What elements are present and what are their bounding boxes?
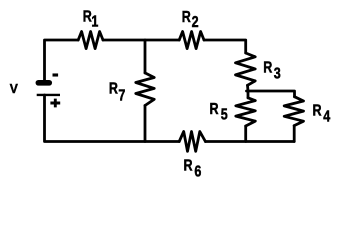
label R1: [83, 8, 99, 31]
battery V negative plate (short thick bar): [38, 80, 49, 86]
svg-text:3: 3: [274, 65, 281, 83]
svg-text:5: 5: [221, 106, 228, 124]
svg-text:1: 1: [91, 13, 98, 31]
resistor R6: [179, 132, 205, 152]
svg-text:6: 6: [194, 163, 201, 181]
label R4: [313, 102, 331, 126]
label R5: [210, 100, 228, 124]
label R2: [182, 9, 199, 32]
svg-text:V: V: [10, 82, 19, 97]
wire mid horizontal (node B to R4 top): [247, 91, 295, 97]
svg-text:R: R: [263, 59, 273, 77]
wire node B (R3 bottom to mid junction): [246, 85, 249, 98]
battery V positive plate (long thin bar): [37, 94, 60, 96]
svg-text:7: 7: [118, 87, 125, 105]
wire bottom rail left (battery bottom to R6): [45, 95, 180, 142]
svg-text:2: 2: [192, 14, 199, 32]
wire R7 bottom lead: [144, 106, 147, 142]
svg-text:R: R: [210, 100, 220, 118]
svg-text:R: R: [109, 80, 119, 98]
resistor R3: [236, 53, 256, 85]
svg-text:R: R: [184, 157, 194, 175]
wire R7 top lead (junction on top rail): [144, 40, 147, 73]
svg-text:R: R: [182, 9, 192, 27]
resistor R5: [236, 98, 256, 126]
svg-text:4: 4: [323, 108, 330, 126]
resistor R4: [284, 97, 303, 126]
resistor R7: [136, 73, 154, 106]
wire top rail R1 to R2 (junction with R7 at x=145): [103, 39, 179, 42]
wire R4 bottom lead: [293, 126, 296, 142]
battery minus sign: [53, 73, 59, 76]
resistor R1: [78, 32, 103, 49]
label R6: [184, 157, 202, 181]
wire bottom rail right (R6 to R4 bottom): [205, 140, 294, 143]
wire top rail R2 to top-right corner down to R3: [204, 40, 246, 53]
wire R5 bottom lead: [244, 126, 247, 142]
battery plus sign: [50, 99, 60, 108]
label R7: [109, 80, 125, 105]
wire left rail top (battery top to top-left corner, then to R1): [45, 40, 79, 81]
svg-text:R: R: [313, 102, 323, 120]
resistor R2: [179, 32, 204, 49]
label R3: [263, 59, 280, 83]
